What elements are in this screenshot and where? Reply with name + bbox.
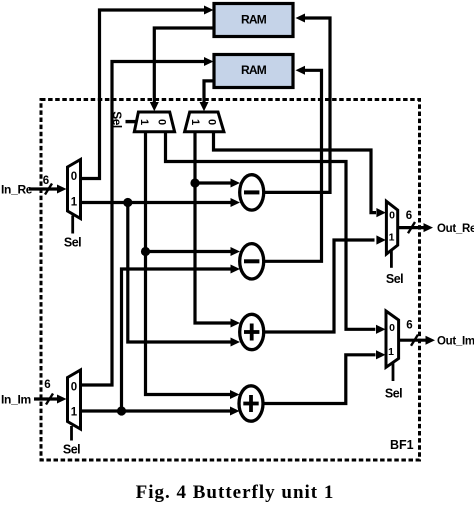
svg-text:0: 0 <box>71 171 77 183</box>
wire M4 out0 to mux M5 input 0 <box>214 132 386 217</box>
mux M6 Sel stub <box>392 363 395 381</box>
svg-text:6: 6 <box>406 210 412 222</box>
svg-text:Sel: Sel <box>386 272 403 286</box>
wire M1 out1 to subtractor S1 lower input <box>80 198 240 207</box>
svg-text:Sel: Sel <box>63 443 80 457</box>
svg-text:BF1: BF1 <box>390 438 414 452</box>
wire M3 out1 to adder A2 upper input <box>146 132 240 399</box>
wire M2 out1 to adder A2 lower input <box>80 407 240 416</box>
wire J3 branch to subtractor S2 upper input <box>146 247 241 256</box>
mux M5 Sel stub <box>390 250 393 268</box>
wire J1 branch to adder A1 lower input <box>128 203 240 347</box>
svg-text:6: 6 <box>44 379 50 391</box>
wire In_Re input with bus slash <box>29 184 67 195</box>
wire S2 output to RAM U2 right input <box>263 66 322 261</box>
mux M4 (RAM U2 output demux) <box>185 112 224 132</box>
subtractor S1 <box>240 175 264 210</box>
wire M6 output Out_Im with bus slash <box>399 335 435 346</box>
svg-text:1: 1 <box>189 119 201 125</box>
svg-text:RAM: RAM <box>241 63 267 77</box>
adder A2 <box>239 386 263 421</box>
mux M3 Sel stub <box>126 120 138 123</box>
subtractor S2 <box>240 244 264 279</box>
wire J4 branch to subtractor S1 upper input <box>195 179 240 188</box>
wire J2 branch to subtractor S2 lower input <box>122 265 241 412</box>
wire M4 out1 to adder A1 upper input <box>195 132 240 328</box>
wire RAM U2 output to mux M4 input <box>200 81 215 111</box>
demux M2 Sel stub <box>70 426 73 441</box>
RAM U2 <box>214 55 293 88</box>
adder A1 <box>240 314 264 349</box>
mux M3 (RAM U1 output demux) <box>134 112 174 132</box>
svg-text:Sel: Sel <box>64 236 81 250</box>
svg-text:0: 0 <box>156 119 168 125</box>
junction J3 on M3 out1 <box>141 247 150 256</box>
dashed box BF1 boundary <box>41 100 420 461</box>
junction J1 on M1 out1 <box>123 198 132 207</box>
svg-text:0: 0 <box>71 382 77 394</box>
svg-text:1: 1 <box>388 346 394 358</box>
wire RAM U1 output to mux M3 input <box>150 28 214 111</box>
svg-text:1: 1 <box>138 119 150 125</box>
svg-text:Sel: Sel <box>385 387 402 401</box>
mux M5 (Out_Re output mux) <box>386 201 397 254</box>
demux M1 (In_Re input demux) <box>68 160 81 219</box>
RAM U1 <box>214 4 293 37</box>
wire A1 output to mux M5 input 1 <box>263 235 386 332</box>
svg-text:6: 6 <box>406 320 412 332</box>
junction J4 on M4 out1 <box>190 178 199 187</box>
svg-text:0: 0 <box>389 209 395 221</box>
svg-text:0: 0 <box>206 119 218 125</box>
mux M6 (Out_Im output mux) <box>386 311 399 367</box>
svg-text:In_Re: In_Re <box>1 183 33 197</box>
svg-text:Fig. 4 Butterfly unit 1: Fig. 4 Butterfly unit 1 <box>136 482 335 503</box>
wire In_Im input with bus slash <box>34 394 67 405</box>
svg-text:Out_Re: Out_Re <box>437 223 474 235</box>
svg-text:1: 1 <box>71 407 78 419</box>
svg-text:1: 1 <box>71 197 78 209</box>
wire M5 output Out_Re with bus slash <box>398 222 433 233</box>
wire A2 output to mux M6 input 1 <box>263 350 386 403</box>
wire M2 out0 to RAM U2 left input <box>80 57 214 385</box>
demux M1 Sel stub <box>71 216 74 234</box>
wire M3 out0 to mux M6 input 0 <box>166 132 386 334</box>
svg-text:Out_Im: Out_Im <box>437 336 474 348</box>
svg-text:Sel: Sel <box>110 111 124 128</box>
svg-text:0: 0 <box>389 322 395 334</box>
junction J2 on M2 out1 <box>117 406 126 415</box>
wire S1 output to RAM U1 right input <box>263 14 330 193</box>
demux M2 (In_Im input demux) <box>68 370 81 429</box>
svg-text:1: 1 <box>389 231 395 243</box>
wire M1 out0 to RAM U1 left input <box>80 6 214 179</box>
svg-text:In_Im: In_Im <box>1 393 31 407</box>
svg-text:6: 6 <box>43 175 49 187</box>
svg-text:RAM: RAM <box>241 13 267 27</box>
